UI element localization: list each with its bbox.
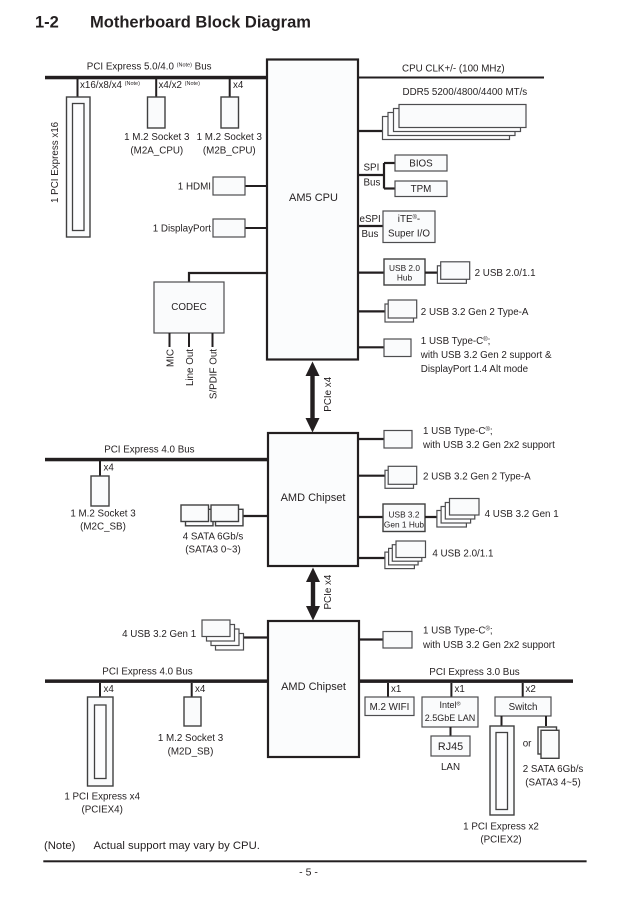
4 USB 3.2 Gen 1 stack bbox=[437, 499, 479, 528]
svg-text:1 USB Type-C®;: 1 USB Type-C®; bbox=[423, 426, 493, 437]
svg-text:(SATA3 0~3): (SATA3 0~3) bbox=[185, 545, 240, 556]
wire switch-sata bbox=[545, 716, 547, 726]
svg-text:4 USB 3.2 Gen 1: 4 USB 3.2 Gen 1 bbox=[485, 509, 559, 520]
svg-text:1 USB Type-C®;: 1 USB Type-C®; bbox=[423, 626, 493, 637]
svg-text:x4: x4 bbox=[104, 684, 115, 695]
svg-text:4 USB 3.2 Gen 1: 4 USB 3.2 Gen 1 bbox=[122, 629, 196, 640]
4 SATA stack bbox=[181, 505, 243, 526]
wire drop lan bbox=[450, 683, 452, 697]
svg-text:4 SATA 6Gb/s: 4 SATA 6Gb/s bbox=[183, 532, 244, 543]
wire usb20 chipset1 bbox=[358, 557, 392, 559]
wire SATA chipset1 bbox=[238, 515, 268, 517]
svg-text:2 SATA 6Gb/s: 2 SATA 6Gb/s bbox=[523, 764, 584, 775]
2 SATA stack vertical bbox=[538, 727, 559, 758]
iTE Super I/O box bbox=[383, 211, 435, 243]
wire drop PCIEX4 bbox=[99, 683, 101, 697]
wire DDR5 bbox=[358, 130, 390, 132]
1 USB Type-C connector bbox=[384, 339, 411, 357]
svg-text:Switch: Switch bbox=[509, 702, 538, 713]
svg-text:1 USB Type-C®;: 1 USB Type-C®; bbox=[421, 336, 491, 347]
svg-text:iTE®-: iTE®- bbox=[398, 214, 420, 225]
svg-text:4 USB 2.0/1.1: 4 USB 2.0/1.1 bbox=[432, 549, 493, 560]
svg-text:1 M.2 Socket 3: 1 M.2 Socket 3 bbox=[158, 733, 224, 744]
svg-text:x4: x4 bbox=[195, 684, 206, 695]
svg-text:with USB 3.2 Gen 2 support &: with USB 3.2 Gen 2 support & bbox=[420, 350, 552, 361]
HDMI connector bbox=[213, 177, 245, 195]
svg-text:DDR5 5200/4800/4400 MT/s: DDR5 5200/4800/4400 MT/s bbox=[403, 87, 528, 98]
svg-text:Hub: Hub bbox=[397, 273, 413, 283]
svg-text:1 PCI Express x4: 1 PCI Express x4 bbox=[64, 792, 140, 803]
wire drop wifi bbox=[387, 683, 389, 697]
svg-text:with USB 3.2 Gen 2x2 support: with USB 3.2 Gen 2x2 support bbox=[422, 440, 555, 451]
svg-text:MIC: MIC bbox=[166, 349, 177, 367]
svg-text:(PCIEX4): (PCIEX4) bbox=[82, 805, 123, 816]
svg-text:(M2A_CPU): (M2A_CPU) bbox=[130, 146, 183, 157]
1 USB Type-C chipset2 bbox=[383, 632, 412, 649]
USB 3.2 Gen 1 Hub box bbox=[383, 504, 425, 532]
svg-text:PCIe x4: PCIe x4 bbox=[323, 376, 334, 411]
wire typec cpu bbox=[358, 346, 385, 348]
wire 4usb gen1 chipset2 bbox=[240, 636, 268, 638]
svg-text:2 USB 3.2 Gen 2 Type-A: 2 USB 3.2 Gen 2 Type-A bbox=[421, 307, 529, 318]
DisplayPort connector bbox=[213, 219, 245, 237]
svg-text:1 HDMI: 1 HDMI bbox=[178, 182, 211, 193]
svg-text:M.2 WIFI: M.2 WIFI bbox=[370, 702, 410, 713]
svg-text:PCI Express 4.0 Bus: PCI Express 4.0 Bus bbox=[104, 445, 194, 456]
wire typec chipset1 bbox=[358, 438, 385, 440]
svg-text:x1: x1 bbox=[391, 684, 401, 695]
AMD chipset2 box bbox=[268, 621, 359, 757]
CODEC box bbox=[154, 282, 224, 333]
arrow PCIe x4 chipset1-chipset2 bbox=[306, 568, 320, 621]
svg-text:S/PDIF Out: S/PDIF Out bbox=[209, 349, 220, 399]
svg-text:USB 3.2: USB 3.2 bbox=[389, 510, 420, 520]
svg-text:(M2C_SB): (M2C_SB) bbox=[80, 522, 126, 533]
svg-text:BIOS: BIOS bbox=[409, 159, 433, 170]
svg-text:SPI: SPI bbox=[364, 163, 380, 174]
svg-text:1 DisplayPort: 1 DisplayPort bbox=[153, 224, 212, 235]
wire gen2typea chipset1 bbox=[358, 475, 390, 477]
wire hub chipset1 bbox=[358, 516, 383, 518]
svg-text:1 PCI Express x16: 1 PCI Express x16 bbox=[50, 121, 61, 203]
wire CODEC to CPU bbox=[189, 273, 267, 282]
M.2 socket M2D bbox=[184, 697, 201, 726]
svg-text:CPU CLK+/- (100 MHz): CPU CLK+/- (100 MHz) bbox=[402, 64, 505, 75]
svg-text:RJ45: RJ45 bbox=[438, 741, 463, 753]
4 USB 3.2 Gen 1 stack left bbox=[202, 620, 244, 650]
2 USB 3.2 Gen 2 stack chipset1 bbox=[385, 466, 417, 488]
svg-text:Motherboard Block Diagram: Motherboard Block Diagram bbox=[90, 14, 311, 32]
svg-text:(M2D_SB): (M2D_SB) bbox=[168, 747, 214, 758]
svg-text:or: or bbox=[523, 739, 532, 750]
svg-text:(M2B_CPU): (M2B_CPU) bbox=[203, 146, 256, 157]
RJ45 box bbox=[431, 736, 470, 756]
svg-text:PCI Express 5.0/4.0 (Note) Bus: PCI Express 5.0/4.0 (Note) Bus bbox=[87, 62, 212, 73]
wire USB2 hub bbox=[358, 272, 384, 274]
svg-text:with USB 3.2 Gen 2x2 support: with USB 3.2 Gen 2x2 support bbox=[422, 640, 555, 651]
PCIEX2 slot bbox=[490, 726, 514, 815]
wire drop M2B bbox=[229, 79, 231, 97]
svg-text:1-2: 1-2 bbox=[35, 14, 59, 32]
svg-text:- 5 -: - 5 - bbox=[299, 867, 318, 879]
wire drop switch bbox=[522, 683, 524, 697]
bus PCI Express 3.0 bbox=[359, 679, 573, 683]
wire drop M2A bbox=[155, 79, 157, 97]
wire intel-rj45 bbox=[450, 727, 452, 736]
svg-text:(SATA3 4~5): (SATA3 4~5) bbox=[525, 778, 580, 789]
svg-text:DisplayPort 1.4 Alt mode: DisplayPort 1.4 Alt mode bbox=[421, 364, 529, 375]
svg-text:AM5 CPU: AM5 CPU bbox=[289, 192, 338, 204]
USB 2.0 Hub box bbox=[384, 259, 425, 285]
AMD chipset1 box bbox=[268, 433, 358, 566]
footer rule bbox=[43, 860, 586, 862]
Switch box bbox=[495, 697, 551, 716]
wire CPU CLK bbox=[358, 77, 544, 79]
wire typec chipset2 bbox=[358, 638, 385, 640]
wire hub to ports bbox=[425, 272, 445, 274]
bus PCI Express 4.0 chipset1 bbox=[45, 458, 268, 462]
M.2 socket M2C bbox=[91, 476, 109, 506]
bus PCI Express 5.0/4.0 bbox=[45, 76, 267, 80]
svg-text:1 PCI Express x2: 1 PCI Express x2 bbox=[463, 822, 539, 833]
svg-text:LAN: LAN bbox=[441, 762, 460, 773]
M.2 WIFI box bbox=[365, 697, 414, 716]
svg-text:2.5GbE LAN: 2.5GbE LAN bbox=[425, 713, 476, 723]
svg-text:2 USB 2.0/1.1: 2 USB 2.0/1.1 bbox=[475, 268, 536, 279]
Intel LAN box bbox=[422, 697, 478, 727]
svg-text:x4: x4 bbox=[233, 80, 244, 91]
svg-text:x4: x4 bbox=[104, 463, 115, 474]
svg-text:Bus: Bus bbox=[362, 229, 379, 240]
svg-text:USB 2.0: USB 2.0 bbox=[389, 263, 420, 273]
PCIEX4 slot bbox=[88, 697, 114, 786]
svg-text:Line Out: Line Out bbox=[185, 349, 196, 386]
M.2 socket M2A bbox=[148, 97, 166, 128]
1 USB Type-C chipset1 bbox=[384, 431, 412, 449]
wire drop x16 bbox=[77, 79, 79, 97]
svg-text:x2: x2 bbox=[526, 684, 536, 695]
svg-text:x4/x2 (Note): x4/x2 (Note) bbox=[159, 80, 201, 91]
svg-text:Gen 1 Hub: Gen 1 Hub bbox=[384, 520, 425, 530]
wire switch-pciex2 bbox=[501, 716, 503, 726]
svg-text:PCIe x4: PCIe x4 bbox=[323, 574, 334, 609]
svg-text:Super I/O: Super I/O bbox=[388, 229, 430, 240]
arrow PCIe x4 CPU-chipset1 bbox=[306, 362, 320, 433]
wire SPI bus bbox=[358, 174, 384, 176]
svg-text:(PCIEX2): (PCIEX2) bbox=[480, 835, 521, 846]
wire eSPI bus bbox=[358, 225, 383, 227]
svg-text:Bus: Bus bbox=[364, 178, 381, 189]
svg-text:PCI Express 3.0 Bus: PCI Express 3.0 Bus bbox=[429, 667, 519, 678]
wire usb32gen2 cpu bbox=[358, 310, 390, 312]
2 USB 2.0 stack bbox=[437, 262, 469, 284]
TPM box bbox=[395, 181, 447, 197]
BIOS box bbox=[395, 155, 447, 171]
svg-text:1 M.2 Socket 3: 1 M.2 Socket 3 bbox=[197, 132, 263, 143]
svg-text:2 USB 3.2 Gen 2 Type-A: 2 USB 3.2 Gen 2 Type-A bbox=[423, 472, 531, 483]
svg-text:(Note): (Note) bbox=[44, 840, 76, 852]
wire HDMI bbox=[245, 185, 267, 187]
4 USB 2.0 stack chipset1 bbox=[385, 541, 426, 569]
svg-text:TPM: TPM bbox=[411, 184, 432, 195]
svg-text:eSPI: eSPI bbox=[360, 214, 381, 225]
svg-text:Actual support may vary by CPU: Actual support may vary by CPU. bbox=[94, 840, 260, 852]
svg-text:x16/x8/x4 (Note): x16/x8/x4 (Note) bbox=[80, 80, 140, 91]
svg-text:1 M.2 Socket 3: 1 M.2 Socket 3 bbox=[124, 132, 190, 143]
wire drop M2C bbox=[99, 461, 101, 476]
wire drop M2D bbox=[191, 683, 193, 697]
CODEC pins bbox=[169, 333, 171, 347]
svg-text:1 M.2 Socket 3: 1 M.2 Socket 3 bbox=[70, 509, 136, 520]
svg-text:CODEC: CODEC bbox=[171, 302, 206, 313]
M.2 socket M2B bbox=[221, 97, 239, 128]
wire DisplayPort bbox=[245, 227, 267, 229]
AM5 CPU box bbox=[267, 60, 358, 360]
svg-text:x1: x1 bbox=[455, 684, 465, 695]
svg-text:AMD Chipset: AMD Chipset bbox=[281, 492, 346, 504]
PCI Express x16 slot bbox=[67, 97, 91, 237]
bus PCI Express 4.0 chipset2 bbox=[45, 679, 268, 683]
svg-text:AMD Chipset: AMD Chipset bbox=[281, 681, 346, 693]
2 USB 3.2 Gen2 stack bbox=[385, 300, 417, 322]
svg-text:PCI Express 4.0 Bus: PCI Express 4.0 Bus bbox=[102, 666, 192, 677]
DDR5 DIMM stack bbox=[383, 105, 527, 140]
wire hub to stack bbox=[425, 516, 450, 518]
